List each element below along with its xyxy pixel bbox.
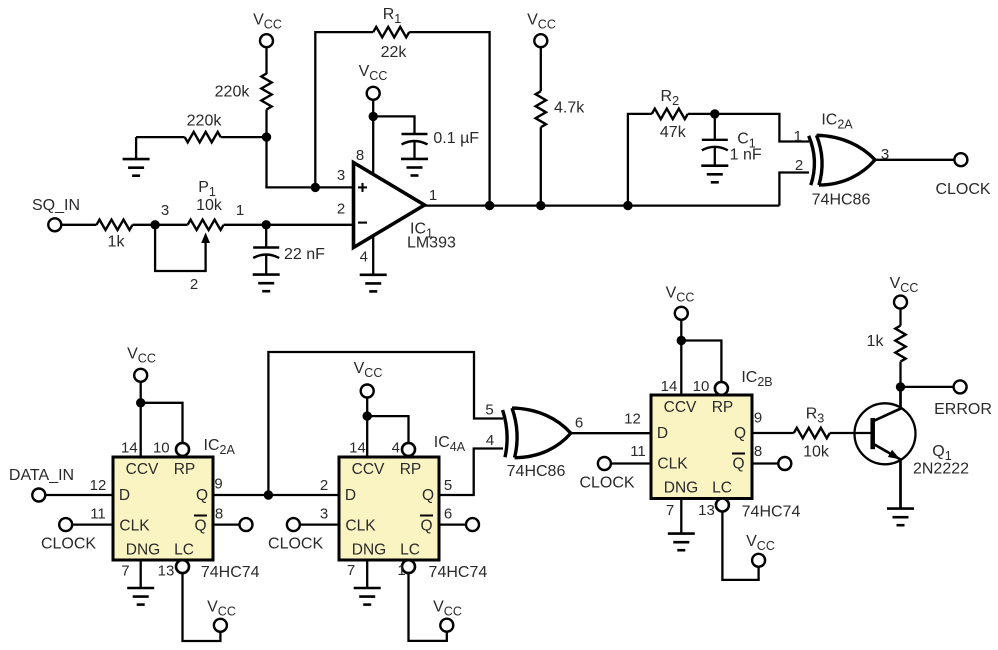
svg-text:10k: 10k [803, 444, 830, 461]
resistor 220k (horizontal) [136, 112, 266, 159]
svg-text:Q: Q [420, 518, 432, 535]
svg-text:CLOCK: CLOCK [579, 475, 634, 492]
pin bubble FF1 pin 13 [176, 560, 189, 573]
svg-text:47k: 47k [660, 124, 687, 141]
terminal FF1 Qbar [240, 518, 253, 531]
resistor R2 47k [628, 88, 715, 206]
svg-text:2: 2 [337, 201, 345, 218]
wire XOR pin 1 [715, 114, 809, 145]
wire SQ_IN to 1k [61, 224, 96, 226]
wire R3 to base [830, 432, 872, 434]
svg-text:1k: 1k [108, 233, 126, 250]
ground (C1) [701, 166, 728, 183]
svg-text:3: 3 [161, 202, 169, 219]
wire FF3 pin 14 [680, 320, 682, 395]
svg-text:CLK: CLK [119, 518, 150, 535]
svg-text:2N2222: 2N2222 [913, 460, 969, 477]
svg-text:6: 6 [444, 506, 452, 523]
svg-text:DNG: DNG [352, 542, 386, 559]
flip-flop IC4A 74HC74 [320, 434, 488, 581]
svg-text:11: 11 [90, 505, 106, 522]
svg-text:9: 9 [214, 476, 222, 493]
svg-text:10: 10 [153, 440, 170, 457]
wire FF1 pin 14 [140, 382, 142, 457]
svg-text:Q: Q [732, 456, 744, 473]
svg-text:D: D [345, 487, 356, 504]
xor gate IC4B 74HC86 [485, 402, 583, 481]
wire node to inverting input [266, 224, 352, 226]
resistor 1k [97, 220, 133, 251]
svg-text:5: 5 [444, 477, 452, 494]
wire FF2 pin 7 to ground [366, 560, 368, 588]
wire node 3 to P1 [155, 224, 188, 226]
svg-text:RP: RP [712, 399, 734, 416]
svg-text:CLOCK: CLOCK [935, 181, 990, 198]
svg-text:14: 14 [349, 440, 366, 457]
svg-text:74HC86: 74HC86 [507, 463, 566, 480]
terminal CLOCK output [935, 153, 990, 198]
ground (FF2 pin 7) [354, 588, 381, 605]
op-amp IC1 LM393 [337, 147, 456, 266]
svg-text:CCV: CCV [664, 399, 697, 416]
svg-text:8: 8 [356, 147, 364, 164]
transistor Q1 2N2222 [855, 387, 970, 509]
wire FF3 pin 7 to ground [680, 499, 682, 534]
svg-text:D: D [657, 425, 668, 442]
capacitor C1 1 nF [702, 114, 762, 166]
pin bubble FF3 pin 13 [716, 499, 729, 512]
power VCC terminal (FF2 top) [354, 360, 383, 397]
svg-text:Q: Q [194, 518, 206, 535]
svg-text:LC: LC [712, 480, 732, 497]
svg-text:12: 12 [624, 411, 641, 428]
pin bubble FF2 pin 4 [402, 443, 415, 456]
terminal CLOCK (FF1) [41, 518, 96, 552]
svg-text:6: 6 [575, 414, 583, 431]
wire P1 wiper loop to node 3 [155, 225, 210, 293]
svg-text:LC: LC [174, 542, 194, 559]
svg-text:4: 4 [486, 432, 494, 449]
wire DATA_IN to FF1 D [45, 494, 113, 496]
resistor 4.7k pull-up [536, 47, 586, 205]
ground (22nF) [253, 275, 280, 292]
wire op-amp output line [424, 204, 779, 206]
wire CLOCK to FF3 CLK [611, 462, 651, 464]
wire pin 8 to VCC [372, 116, 374, 174]
wire FF1 preset pin 10 [141, 403, 183, 443]
svg-text:RP: RP [174, 461, 196, 478]
node 3 junction [150, 202, 169, 229]
svg-text:10k: 10k [196, 197, 223, 214]
power VCC terminal (FF2 bottom) [433, 598, 462, 631]
wire FF3 Qbar stub [752, 462, 778, 464]
resistor 1k collector [867, 309, 906, 387]
node junction FF3 VCC [677, 336, 686, 345]
wire 220k to junction [265, 110, 267, 138]
pin bubble FF3 pin 10 [715, 382, 728, 395]
terminal FF3 Qbar [778, 457, 791, 470]
node junction FF2 VCC [363, 411, 372, 420]
svg-text:5: 5 [485, 402, 493, 419]
svg-text:2: 2 [190, 276, 198, 293]
svg-text:DNG: DNG [126, 542, 160, 559]
terminal FF2 Qbar [466, 518, 479, 531]
svg-text:Q: Q [422, 487, 434, 504]
svg-text:CLOCK: CLOCK [268, 535, 323, 552]
svg-text:4: 4 [392, 440, 400, 457]
node junction FF1 Q [264, 490, 273, 499]
svg-text:1k: 1k [867, 333, 885, 350]
wire VCC to 220k vertical [265, 47, 267, 74]
power VCC terminal (Q1) [890, 275, 919, 309]
svg-text:8: 8 [754, 443, 762, 460]
svg-text:74HC74: 74HC74 [201, 564, 260, 581]
node junction R1 right [485, 201, 494, 210]
power VCC terminal (FF3 bottom) [746, 533, 775, 567]
power VCC terminal (op-amp) [359, 63, 388, 100]
wire FF2 Qbar stub [439, 523, 466, 525]
svg-text:1: 1 [236, 202, 244, 219]
svg-text:Q: Q [734, 425, 746, 442]
svg-text:1 nF: 1 nF [730, 147, 762, 164]
ground (op-amp pin 4) [360, 275, 387, 292]
svg-text:9: 9 [754, 410, 762, 427]
node junction R2 branch [623, 201, 632, 210]
capacitor 22 nF [253, 225, 325, 275]
wire FF3 Q to R3 [752, 432, 794, 434]
wire XOR output to FF3 D [571, 411, 651, 434]
svg-text:220k: 220k [187, 112, 223, 129]
svg-text:CLOCK: CLOCK [41, 535, 96, 552]
wire FF2 Q to XOR pin 4 [439, 449, 503, 496]
wire FF1 clear pin 13 to VCC [183, 573, 221, 641]
wire CLOCK to FF2 CLK [300, 523, 339, 525]
node junction 22nF [262, 220, 271, 229]
wire to bypass cap [373, 116, 414, 134]
svg-text:LC: LC [400, 542, 420, 559]
wire CLOCK to FF1 CLK [72, 523, 113, 525]
resistor R1 22k feedback [315, 6, 489, 206]
svg-text:ERROR: ERROR [934, 401, 992, 418]
terminal SQ_IN [32, 197, 80, 231]
svg-text:RP: RP [400, 461, 422, 478]
wire FF3 clear pin 13 to VCC [722, 512, 758, 580]
terminal ERROR [934, 380, 992, 418]
wire FF1 Q up and over to XOR pin 5 [268, 352, 503, 495]
svg-text:Q: Q [196, 487, 208, 504]
svg-text:2: 2 [795, 157, 803, 174]
terminal CLOCK (FF3) [579, 457, 634, 492]
ground (Q1 emitter) [887, 509, 914, 526]
flip-flop IC2A 74HC74 [90, 437, 260, 581]
svg-text:13: 13 [698, 502, 715, 519]
wire FF1 Q output [213, 494, 268, 496]
svg-text:CCV: CCV [126, 461, 159, 478]
wire junction down to noninverting input [267, 137, 353, 187]
wire pin 4 to ground [372, 236, 374, 275]
power VCC terminal (above 220k) [253, 11, 282, 47]
svg-text:DNG: DNG [664, 480, 698, 497]
ground (0.1uF) [401, 159, 428, 176]
resistor 220k (vertical) [215, 74, 272, 110]
svg-text:2: 2 [320, 477, 328, 494]
svg-text:14: 14 [121, 440, 138, 457]
pin bubble FF1 pin 10 [176, 443, 189, 456]
resistor R3 10k [794, 406, 830, 461]
svg-text:DATA_IN: DATA_IN [9, 467, 74, 484]
svg-text:8: 8 [215, 506, 223, 523]
svg-text:1: 1 [397, 562, 405, 579]
wire to ERROR terminal [901, 386, 954, 388]
wire VCC stem [372, 100, 374, 117]
power VCC terminal (FF3 top) [666, 284, 695, 319]
terminal DATA_IN [9, 467, 74, 502]
svg-text:CLK: CLK [345, 518, 376, 535]
svg-text:12: 12 [90, 477, 107, 494]
power VCC terminal (FF1 bottom) [207, 599, 236, 632]
svg-text:0.1 µF: 0.1 µF [433, 130, 479, 147]
svg-text:74HC86: 74HC86 [812, 191, 871, 208]
node junction 220k [262, 132, 271, 141]
svg-text:3: 3 [337, 167, 345, 184]
power VCC terminal (FF1 top) [127, 345, 156, 381]
power VCC terminal (4.7k) [527, 11, 556, 47]
pin bubble FF2 pin 1 [402, 560, 415, 573]
wire FF2 pin 14 [366, 398, 368, 458]
svg-text:LM393: LM393 [407, 235, 456, 252]
wire FF1 pin 7 to ground [140, 560, 142, 588]
svg-text:1: 1 [429, 187, 437, 204]
xor gate IC2A 74HC86 [809, 111, 889, 208]
svg-text:22 nF: 22 nF [284, 246, 325, 263]
svg-text:22k: 22k [381, 44, 408, 61]
svg-text:CLK: CLK [657, 456, 688, 473]
wire FF1 Qbar stub [213, 523, 240, 525]
svg-text:CCV: CCV [352, 461, 385, 478]
node junction VCC / bypass cap [369, 112, 378, 121]
svg-text:SQ_IN: SQ_IN [32, 197, 80, 214]
wire FF2 preset pin 4 [367, 416, 408, 443]
svg-text:10: 10 [693, 378, 710, 395]
node junction FF1 VCC [136, 398, 145, 407]
svg-text:1: 1 [794, 128, 802, 145]
ground (FF3 pin 7) [668, 534, 695, 551]
capacitor 0.1 uF [402, 130, 480, 159]
ground (left of 220k) [123, 159, 150, 176]
wire XOR output to CLOCK [875, 159, 954, 161]
wire FF2 clear pin 1 to VCC [409, 573, 447, 641]
wire P1 to node C [224, 224, 267, 226]
svg-text:74HC74: 74HC74 [429, 564, 488, 581]
svg-text:D: D [119, 487, 130, 504]
svg-text:4: 4 [360, 249, 368, 266]
svg-text:11: 11 [630, 443, 646, 460]
node junction C1 [710, 109, 719, 118]
svg-text:4.7k: 4.7k [554, 99, 585, 116]
wire FF1 Q to FF2 D [268, 494, 339, 496]
node junction 4.7k [536, 201, 545, 210]
svg-text:220k: 220k [215, 83, 251, 100]
node junction R1 / + input [311, 183, 320, 192]
wire FF3 preset pin 10 [681, 341, 721, 383]
svg-text:13: 13 [158, 562, 175, 579]
wire 1k to node 3 [133, 224, 156, 226]
svg-text:7: 7 [347, 562, 355, 579]
svg-text:7: 7 [666, 502, 674, 519]
terminal CLOCK (FF2) [268, 518, 323, 552]
flip-flop IC2B 74HC74 [630, 369, 800, 521]
svg-text:14: 14 [661, 378, 678, 395]
node junction collector / ERROR [896, 382, 905, 391]
wire XOR pin 2 [779, 157, 809, 206]
ground (FF1 pin 7) [127, 588, 154, 605]
svg-text:7: 7 [121, 562, 129, 579]
potentiometer P1 10k [188, 179, 224, 230]
svg-text:3: 3 [320, 505, 328, 522]
svg-text:74HC74: 74HC74 [742, 504, 801, 521]
